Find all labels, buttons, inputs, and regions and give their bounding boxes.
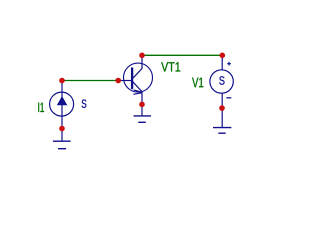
wire: V1 top lead (221, 55, 223, 70)
V1 plus sign (227, 62, 231, 66)
ground (below VT1) (134, 116, 152, 122)
node: VT1 base junction (115, 78, 121, 84)
label I1 (38, 103, 44, 112)
label VT1 (161, 62, 180, 71)
node: I1 top junction (59, 78, 65, 84)
VT1 base lead (118, 80, 131, 82)
VT1 circle (124, 63, 153, 92)
wire: V1 bottom lead to ground (221, 93, 223, 127)
node: I1 bottom junction (59, 126, 65, 132)
node: VT1 emitter junction (139, 102, 145, 108)
I1 arrow (57, 96, 68, 105)
voltage source V1 (210, 55, 233, 127)
node: V1 top junction (220, 53, 226, 59)
VT1 base bar (131, 68, 133, 90)
V1 circle (210, 70, 233, 93)
current source I1 (50, 81, 74, 142)
wire: I1 vertical lead through circle to ground (61, 81, 63, 142)
wire: I1 top to VT1 base (green) (62, 80, 118, 82)
VT1 emitter arrow (133, 90, 141, 94)
I1 circle (50, 92, 74, 116)
V1 minus sign (226, 97, 231, 99)
label S (I1 source glyph) (82, 99, 87, 107)
label V1 (192, 78, 203, 88)
wire: VT1 collector to V1 top (green) (142, 54, 222, 56)
wire: VT1 emitter lead to ground (133, 82, 142, 116)
ground (below I1) (53, 141, 71, 149)
node: VT1 collector junction (139, 53, 145, 59)
label S (V1 source glyph) (219, 76, 224, 84)
wire: VT1 collector lead (133, 55, 142, 78)
ground (below V1) (213, 128, 231, 134)
transistor VT1 (118, 55, 153, 116)
node: V1 bottom junction (219, 105, 225, 111)
